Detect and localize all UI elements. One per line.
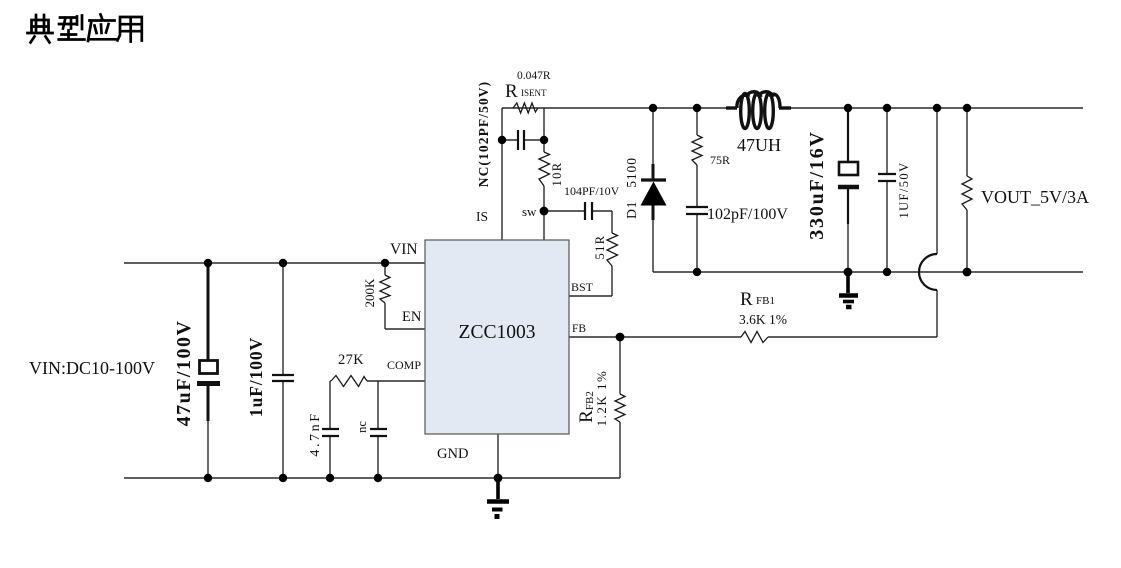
svg-text:COMP: COMP [387, 358, 421, 372]
svg-text:EN: EN [402, 309, 422, 325]
svg-text:51R: 51R [593, 234, 607, 259]
svg-text:ISENT: ISENT [521, 88, 547, 98]
svg-text:VIN:DC10-100V: VIN:DC10-100V [29, 358, 155, 378]
svg-text:VIN: VIN [390, 241, 418, 258]
svg-text:VOUT_5V/3A: VOUT_5V/3A [981, 187, 1089, 207]
svg-text:1uF/100V: 1uF/100V [246, 337, 266, 417]
svg-text:27K: 27K [338, 352, 364, 368]
svg-text:R: R [505, 81, 518, 102]
svg-text:47UH: 47UH [737, 135, 781, 155]
svg-text:200K: 200K [362, 278, 377, 308]
svg-text:1UF/50V: 1UF/50V [897, 161, 911, 218]
svg-text:FB1: FB1 [756, 295, 775, 307]
svg-text:FB: FB [572, 323, 586, 335]
svg-text:ZCC1003: ZCC1003 [459, 322, 536, 343]
svg-text:3.6K 1%: 3.6K 1% [739, 312, 787, 327]
svg-text:0.047R: 0.047R [517, 70, 551, 82]
svg-text:4.7nF: 4.7nF [308, 411, 323, 456]
svg-text:R: R [740, 289, 753, 310]
svg-text:10R: 10R [550, 161, 564, 186]
svg-text:104PF/10V: 104PF/10V [564, 184, 620, 198]
svg-text:NC(102PF/50V): NC(102PF/50V) [476, 81, 491, 188]
svg-text:IS: IS [476, 209, 488, 224]
svg-text:BST: BST [571, 280, 594, 294]
svg-text:GND: GND [437, 446, 468, 462]
svg-text:nc: nc [355, 421, 369, 433]
svg-text:D1 5100: D1 5100 [624, 157, 639, 219]
svg-text:sw: sw [522, 204, 537, 219]
svg-text:75R: 75R [710, 153, 730, 167]
svg-text:330uF/16V: 330uF/16V [806, 130, 828, 240]
svg-text:102pF/100V: 102pF/100V [707, 206, 788, 223]
svg-text:1.2K 1%: 1.2K 1% [594, 370, 609, 427]
svg-text:47uF/100V: 47uF/100V [173, 320, 195, 427]
